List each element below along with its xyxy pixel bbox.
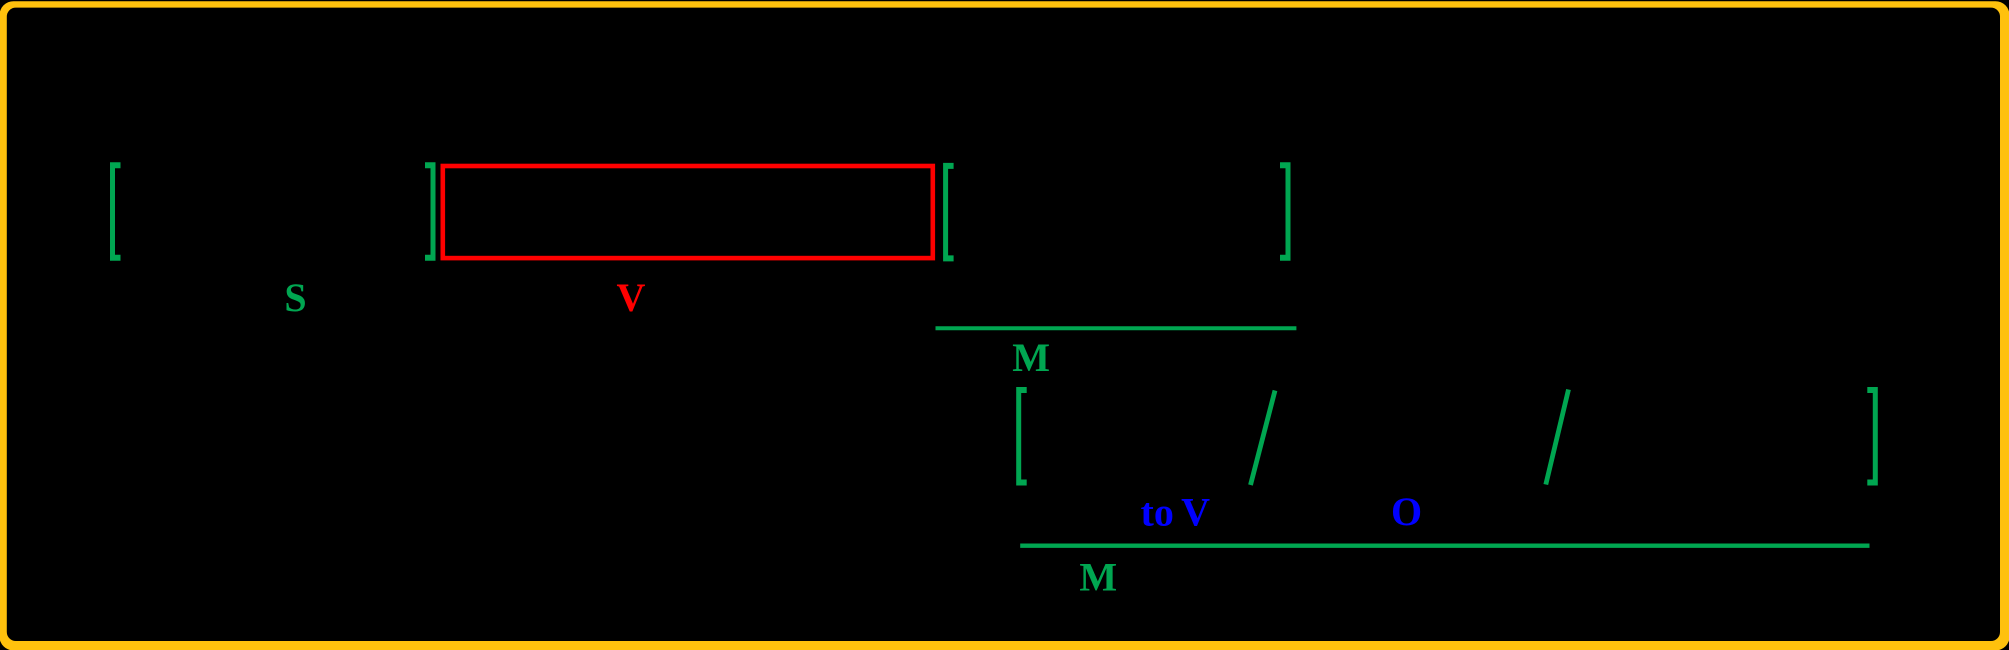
svg-text:O: O: [1391, 489, 1422, 534]
modifier underline 2: [1020, 544, 1869, 548]
svg-text:V: V: [1181, 489, 1210, 534]
svg-text:S: S: [284, 275, 306, 320]
svg-text:to: to: [1141, 489, 1174, 534]
svg-text:M: M: [1012, 335, 1050, 380]
lower phrase opening bracket [: [1016, 387, 1027, 486]
svg-text:M: M: [1079, 554, 1117, 599]
modifier underline 1: [936, 326, 1297, 330]
verb red box V: [443, 166, 933, 258]
object-phrase closing bracket ]: [1280, 162, 1291, 260]
lower phrase closing bracket ]: [1867, 387, 1878, 486]
slash divider 2: [1546, 390, 1569, 485]
subject closing bracket ]: [425, 162, 436, 260]
slash divider 1: [1251, 391, 1276, 486]
svg-text:V: V: [616, 275, 645, 320]
subject opening bracket [: [110, 162, 121, 260]
object-phrase opening bracket [: [943, 163, 954, 262]
